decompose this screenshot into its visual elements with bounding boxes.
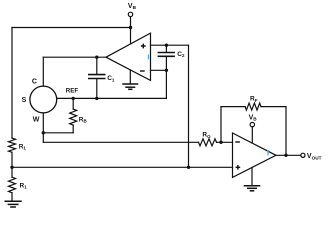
terminal VOUT: [301, 153, 305, 157]
wire RB bottom link: [43, 132, 73, 134]
node C2 top: [165, 44, 168, 47]
wire REF line: [57, 97, 167, 99]
ground (bottom left): [5, 201, 22, 207]
op-amp U2 input polarity marks: [235, 142, 240, 170]
resistor R1 (top): [9, 138, 16, 152]
svg-text:RB: RB: [79, 116, 88, 123]
wire node A down to sensor top: [42, 57, 44, 86]
capacitor C2: [158, 53, 175, 57]
op-amp U1 triangle: [106, 33, 151, 80]
node R1 divider: [10, 166, 13, 169]
wire feedback right vertical: [285, 107, 287, 156]
wire U2 output: [276, 154, 301, 156]
terminal VB2: [250, 122, 254, 126]
resistor R1 (bottom): [9, 177, 16, 193]
node RG / feedback: [219, 141, 222, 144]
wire RB top stem: [72, 98, 74, 109]
node C1 bottom / REF: [95, 97, 98, 100]
svg-text:C2: C2: [177, 51, 185, 58]
wire U2 ground stem: [251, 167, 253, 185]
wire C1 bottom lead: [96, 79, 98, 98]
wire U1 +input to right corner: [151, 44, 189, 46]
wire VB2 stem: [251, 127, 253, 143]
node output: [284, 154, 287, 157]
wire feedback top left: [221, 106, 245, 108]
wire U1 output to node A: [43, 56, 106, 58]
capacitor C1: [88, 75, 106, 79]
node C1 top: [95, 56, 98, 59]
svg-text:S: S: [22, 97, 27, 104]
node C2 bottom: [165, 69, 168, 72]
node + line tee: [187, 166, 190, 169]
wire VB1 stem: [130, 17, 132, 44]
wire sensor W lead down: [42, 113, 44, 142]
wire U1 -input stub: [151, 69, 167, 71]
svg-text:VOUT: VOUT: [307, 153, 322, 160]
svg-text:VB: VB: [128, 3, 137, 10]
ground (under U2): [244, 186, 261, 191]
wire RG to U2 -input: [217, 141, 233, 143]
wire right vertical down to +node line: [188, 45, 190, 167]
sensor S (circle): [30, 86, 57, 113]
node junction dots: [10, 26, 287, 169]
wire RB bottom stem: [72, 125, 74, 133]
node VB1 tee: [129, 26, 132, 29]
svg-text:VB: VB: [249, 114, 258, 121]
svg-text:C1: C1: [107, 75, 115, 82]
svg-text:RG: RG: [202, 132, 211, 139]
op-amp U1 input polarity marks: [140, 44, 146, 71]
svg-text:R1: R1: [20, 182, 28, 189]
op-amp U2 triangle: [233, 133, 277, 177]
wire +node line to U2 +input: [12, 166, 233, 168]
wire top rail from VB1 to left side: [12, 27, 131, 29]
node W / RB: [42, 131, 45, 134]
svg-text:REF: REF: [66, 87, 79, 94]
terminal VB1: [128, 12, 132, 16]
wire C2 bottom lead down to REF: [165, 56, 167, 98]
svg-text:W: W: [33, 116, 40, 123]
resistor RB: [70, 109, 77, 125]
svg-text:RF: RF: [250, 96, 258, 103]
svg-text:C: C: [32, 79, 37, 86]
ground (under U1): [122, 84, 138, 89]
wire feedback top right: [261, 106, 286, 108]
blue cursor artifact U1: [148, 54, 149, 59]
wire between R1 resistors: [11, 152, 13, 177]
wire R1 to ground: [11, 193, 13, 201]
wire C2 top lead: [165, 45, 167, 52]
blue cursor artifact U2: [267, 150, 268, 155]
node RB top / REF: [72, 97, 75, 100]
svg-text:R1: R1: [19, 143, 27, 150]
resistor RF: [245, 103, 261, 110]
resistor RG: [199, 139, 217, 146]
wire U1 ground stem: [129, 70, 131, 84]
wire C1 top lead: [96, 57, 98, 74]
wire feedback left vertical: [220, 107, 222, 143]
wire W node to RG: [43, 141, 198, 143]
wire left rail down to R1: [11, 28, 13, 139]
